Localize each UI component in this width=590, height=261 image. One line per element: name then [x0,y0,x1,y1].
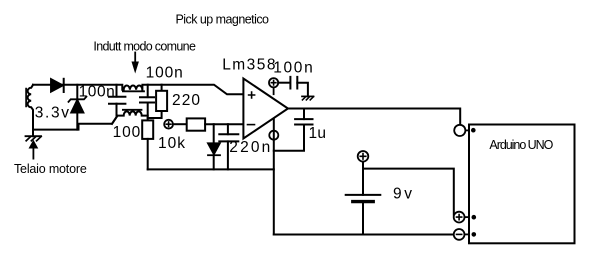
wire ground to Arduino gnd terminal [274,234,454,236]
arrow to ground (Telaio motore) [30,141,37,147]
core line bottom winding [123,109,142,111]
Arduino UNO box [469,125,575,244]
battery 9v [362,162,364,195]
resistor 100 [142,120,153,138]
wire top rail from pickup coil to op-amp plus input (with choke dip) [33,85,243,95]
core line of pickup coil [25,89,27,107]
ground rail [148,168,274,170]
resistor 10k [187,118,205,130]
capacitor 100n (left of choke) [116,85,118,97]
inductor choke top winding core [123,90,144,92]
wire op-amp output to Arduino input [288,109,460,125]
svg-text:100: 100 [113,124,141,141]
op-amp U1 Lm358 [243,79,288,139]
svg-text:Telaio motore: Telaio motore [14,162,87,176]
svg-text:Pick up magnetico: Pick up magnetico [176,13,270,27]
capacitor 1u [303,109,305,120]
svg-text:Indutt modo comune: Indutt modo comune [93,40,196,54]
diode D2 to ground [213,124,215,143]
ground op-amp decoupling [302,95,314,97]
inductor L1 pickup coil [28,85,33,130]
inductor choke bottom winding [112,111,148,123]
wire node to 10k [173,123,187,125]
terminal to Arduino analog input [454,125,465,136]
wire bottom left return [33,116,118,130]
op-amp V+ supply symbol [273,87,275,94]
node +9v supply symbol [164,120,173,129]
arrow Indutt modo comune [134,53,136,63]
svg-text:1u: 1u [309,125,327,142]
battery + supply symbol [358,151,369,162]
terminal minus to Arduino [454,229,465,240]
terminal plus to Arduino [454,212,465,223]
svg-text:100n: 100n [146,65,183,82]
svg-text:100n: 100n [79,83,115,100]
svg-text:9v: 9v [393,186,412,203]
svg-text:10k: 10k [158,135,185,152]
op-amp V- pin and ground drop wire [273,119,275,235]
svg-text:100n: 100n [273,60,313,77]
capacitor (right of choke) [147,85,149,97]
resistor 220 [161,85,163,91]
zener diode 3.3v [76,85,78,99]
svg-text:3.3v: 3.3v [35,104,70,121]
diode D1 [51,79,63,92]
wire battery plus to Arduino 5v terminal [363,169,454,215]
svg-text:Arduino UNO: Arduino UNO [489,138,553,152]
svg-text:220: 220 [172,92,200,109]
wire 10k to op-amp minus input [205,123,243,125]
ground chassis left [32,130,34,137]
capacitor 220n [227,124,229,134]
svg-text:220n: 220n [229,139,270,156]
capacitor 100n decoupling [278,82,289,84]
svg-text:Lm358: Lm358 [222,57,275,74]
